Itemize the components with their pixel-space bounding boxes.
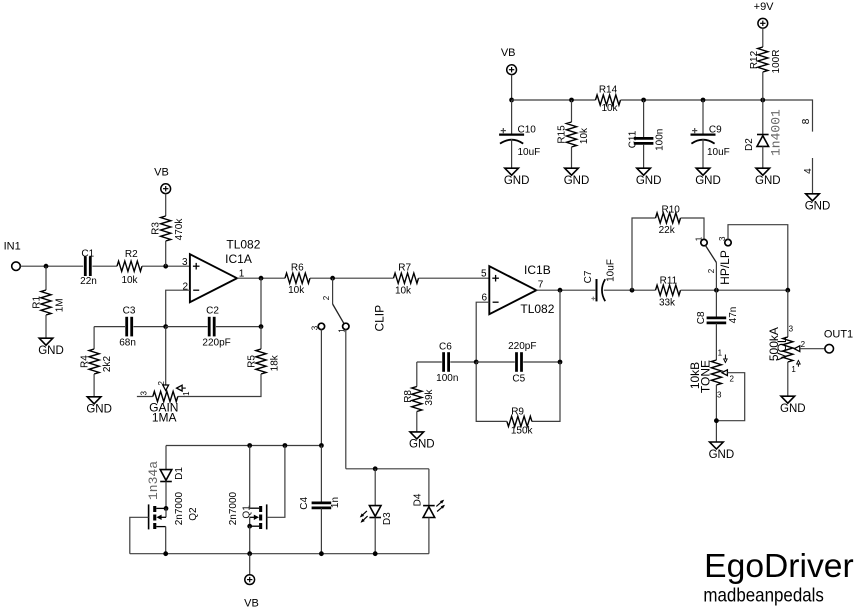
switch HP/LP contact 1 xyxy=(701,239,707,245)
resistor R14 10k xyxy=(596,95,621,105)
svg-text:OUT1: OUT1 xyxy=(824,328,853,340)
capacitor C11 100n xyxy=(643,100,645,138)
svg-text:R12: R12 xyxy=(749,50,760,69)
svg-text:68n: 68n xyxy=(119,337,136,348)
supply VB top-left xyxy=(161,184,171,194)
GAIN pin4 arrow xyxy=(177,385,183,391)
svg-text:1: 1 xyxy=(791,365,796,374)
node IC1B out xyxy=(558,288,563,293)
svg-text:R7: R7 xyxy=(398,263,411,274)
ground R1 xyxy=(39,338,53,345)
node input/R1 xyxy=(44,264,49,269)
svg-text:3: 3 xyxy=(717,391,722,400)
svg-text:2: 2 xyxy=(707,268,716,273)
wire TONE wiper loop xyxy=(716,373,744,421)
wire R7 to IC1B pin5 xyxy=(419,277,490,279)
switch CLIP lever xyxy=(333,304,344,323)
svg-text:39k: 39k xyxy=(424,388,435,405)
svg-text:R15: R15 xyxy=(557,125,568,144)
resistor R6 10k xyxy=(285,273,310,283)
input terminal IN1 xyxy=(12,262,21,271)
svg-text:4: 4 xyxy=(803,168,814,174)
svg-text:1n: 1n xyxy=(330,497,341,508)
wire R1 to ground xyxy=(45,315,47,338)
svg-text:C8: C8 xyxy=(696,311,707,324)
svg-text:GND: GND xyxy=(636,175,662,187)
op-amp IC1B TL082 xyxy=(489,266,536,314)
svg-text:10k: 10k xyxy=(395,285,412,296)
wire D3 to bus xyxy=(374,518,376,554)
svg-text:1: 1 xyxy=(718,349,723,358)
wire CLIP3 down xyxy=(320,329,322,445)
svg-text:C6: C6 xyxy=(439,342,452,353)
node bus Q1 drain xyxy=(247,443,252,448)
svg-text:HP/LP: HP/LP xyxy=(718,250,732,285)
node C9 tap xyxy=(701,98,706,103)
node VB/C10 xyxy=(509,98,514,103)
wire CLIP1 down xyxy=(345,329,347,468)
wire C3 to node xyxy=(133,326,165,328)
svg-text:2: 2 xyxy=(801,340,806,349)
svg-text:GND: GND xyxy=(38,345,64,357)
svg-text:10uF: 10uF xyxy=(707,147,730,158)
capacitor C1 22n xyxy=(85,256,90,276)
wire IC1B pin6 loop xyxy=(476,302,489,362)
svg-text:R1: R1 xyxy=(32,295,43,308)
capacitor C7 10uF xyxy=(596,279,598,301)
resistor R1 1M xyxy=(41,290,51,315)
svg-text:2n7000: 2n7000 xyxy=(228,491,239,525)
svg-text:150k: 150k xyxy=(511,426,534,437)
svg-text:GND: GND xyxy=(755,175,781,187)
wire D3/D4 row xyxy=(346,468,429,470)
node Q1 source xyxy=(247,524,252,529)
wire R2 to IC1A pin3 xyxy=(142,265,190,267)
svg-text:CLIP: CLIP xyxy=(373,305,387,332)
svg-text:2k2: 2k2 xyxy=(102,356,113,373)
svg-text:8: 8 xyxy=(801,118,812,124)
svg-text:R8: R8 xyxy=(403,390,414,403)
wire C1 to R2 xyxy=(92,265,117,267)
wire R10 to contact1 xyxy=(681,218,705,240)
node R15 tap xyxy=(569,98,574,103)
svg-text:GND: GND xyxy=(504,175,530,187)
svg-text:22n: 22n xyxy=(80,276,97,287)
resistor R15 10k xyxy=(571,100,573,122)
node R12/D2 xyxy=(760,98,765,103)
capacitor C3 68n xyxy=(127,317,132,337)
svg-text:1n4001: 1n4001 xyxy=(769,109,784,156)
wire D4 to bus xyxy=(428,518,430,554)
svg-text:C3: C3 xyxy=(123,305,136,316)
svg-text:3: 3 xyxy=(310,325,319,330)
svg-text:C11: C11 xyxy=(627,130,638,148)
node Q2 drain xyxy=(164,506,169,511)
wire Q2 source to bus xyxy=(165,527,167,554)
svg-text:1: 1 xyxy=(695,236,704,241)
ground C11 xyxy=(637,168,651,175)
svg-text:5: 5 xyxy=(481,269,487,280)
ground R15 xyxy=(565,168,579,175)
svg-text:TL082: TL082 xyxy=(520,302,554,316)
node C6/C5/R9 xyxy=(474,360,479,365)
transistor Q1 2n7000 xyxy=(266,504,268,529)
svg-text:1: 1 xyxy=(182,391,191,396)
resistor R9 150k xyxy=(507,416,532,426)
svg-text:100R: 100R xyxy=(771,50,782,74)
svg-text:R11: R11 xyxy=(660,276,678,287)
potentiometer TONE 10kB xyxy=(711,360,721,385)
ground TONE xyxy=(710,442,724,449)
ground R4 xyxy=(87,397,101,404)
svg-text:GND: GND xyxy=(564,175,590,187)
GAIN wiper arrow pin2 xyxy=(163,385,169,391)
svg-text:3: 3 xyxy=(789,324,794,333)
ground C10 xyxy=(505,168,519,175)
wire top bus xyxy=(166,445,321,447)
svg-text:D1: D1 xyxy=(174,467,185,480)
wire Q1 bulk tie xyxy=(249,517,251,526)
svg-text:100n: 100n xyxy=(655,129,666,151)
wire node to C2 xyxy=(166,326,208,328)
node C2/R5 xyxy=(259,324,264,329)
supply +9V xyxy=(758,18,768,28)
capacitor C2 220pF xyxy=(209,317,214,337)
svg-text:7: 7 xyxy=(538,280,544,291)
switch HP/LP common stub xyxy=(715,263,717,291)
ground VOL xyxy=(781,396,795,403)
wire R8 drop xyxy=(416,362,418,387)
wire R12 to node xyxy=(762,72,764,100)
diode D2 1n4001 xyxy=(757,134,769,136)
svg-text:GND: GND xyxy=(709,449,735,461)
svg-text:1MA: 1MA xyxy=(152,411,177,425)
svg-text:IC1B: IC1B xyxy=(524,263,551,277)
svg-text:GND: GND xyxy=(780,403,806,415)
wire C5 to right node xyxy=(523,361,560,363)
ground R8 xyxy=(410,432,424,439)
svg-text:3: 3 xyxy=(182,257,188,268)
svg-text:R9: R9 xyxy=(511,406,524,417)
svg-text:VB: VB xyxy=(244,597,259,609)
node C3/C2/wiper xyxy=(163,324,168,329)
wire IC power pin4 stub xyxy=(812,158,814,194)
capacitor C10 10uF xyxy=(511,100,513,134)
op-amp IC1A TL082 xyxy=(190,254,237,302)
potentiometer GAIN 1MA xyxy=(153,391,178,401)
svg-text:C1: C1 xyxy=(81,248,94,259)
wire C4 branch xyxy=(320,446,322,503)
svg-text:C2: C2 xyxy=(206,305,219,316)
svg-text:100n: 100n xyxy=(436,373,458,384)
LED D3 xyxy=(369,506,381,517)
wire Q1 drain from bus xyxy=(249,446,251,509)
wire C6 to node xyxy=(450,361,476,363)
wire IC1A output xyxy=(237,277,285,279)
svg-text:TL082: TL082 xyxy=(226,238,260,252)
svg-text:2: 2 xyxy=(322,295,331,300)
node bus C4 xyxy=(319,551,324,556)
output terminal OUT1 xyxy=(825,344,834,353)
svg-text:2n7000: 2n7000 xyxy=(174,491,185,525)
wire IC1A pin2 loop xyxy=(166,290,190,326)
svg-text:C5: C5 xyxy=(512,373,525,384)
wire bottom bus xyxy=(130,553,429,555)
svg-text:R3: R3 xyxy=(151,222,162,235)
svg-text:220pF: 220pF xyxy=(508,341,536,352)
svg-text:IN1: IN1 xyxy=(4,240,21,252)
node C11 tap xyxy=(641,98,646,103)
wire VOL wiper to OUT1 xyxy=(800,348,825,350)
wire C6 row left xyxy=(417,361,442,363)
svg-text:1M: 1M xyxy=(54,298,65,312)
ground C9 xyxy=(696,168,710,175)
resistor R2 10k xyxy=(117,261,142,271)
resistor R10 22k xyxy=(656,213,681,223)
svg-text:C10: C10 xyxy=(518,125,537,136)
wire IN1 to C1 xyxy=(20,265,83,267)
resistor R4 2k2 xyxy=(89,349,99,374)
node bus VB xyxy=(247,551,252,556)
capacitor C8 47n xyxy=(707,318,727,323)
ground IC power xyxy=(806,194,820,201)
wire D2 to ground xyxy=(762,146,764,168)
svg-text:1n34a: 1n34a xyxy=(146,461,161,500)
node HP/LP right xyxy=(785,288,790,293)
wire VOL bottom xyxy=(787,362,789,396)
wire R11 to VOL node xyxy=(681,289,788,291)
svg-text:VOL: VOL xyxy=(775,336,789,360)
wire R9 left leg xyxy=(476,362,507,421)
wire C7 to R11 xyxy=(604,289,656,291)
wire R8 to ground xyxy=(416,412,418,432)
switch HP/LP lever xyxy=(705,245,716,262)
svg-text:D2: D2 xyxy=(744,138,755,151)
svg-text:GND: GND xyxy=(409,439,435,451)
svg-text:3: 3 xyxy=(718,236,727,241)
svg-text:R6: R6 xyxy=(291,262,304,273)
svg-text:10uF: 10uF xyxy=(606,259,617,282)
wire C3 corner to R4 xyxy=(93,327,95,349)
wire VB stub bottom xyxy=(249,554,251,575)
wire supply bus right xyxy=(621,100,813,132)
node switch common xyxy=(714,288,719,293)
transistor Q2 2n7000 xyxy=(148,504,150,529)
ground D2 xyxy=(756,168,770,175)
svg-text:C7: C7 xyxy=(583,270,594,283)
wire D4 top xyxy=(428,469,430,506)
supply VB power section xyxy=(507,65,517,75)
wire VB to bus xyxy=(511,75,513,100)
switch CLIP contact 1 xyxy=(343,323,349,329)
resistor R11 33k xyxy=(656,285,681,295)
wire TONE bottom xyxy=(715,385,717,442)
wire Q2 gate loop xyxy=(130,517,149,553)
capacitor C4 1n xyxy=(312,503,332,508)
svg-text:GND: GND xyxy=(695,175,721,187)
wire R1 stub top xyxy=(45,266,47,290)
wire contact3 loop xyxy=(728,225,788,291)
wire D1 top xyxy=(165,446,167,470)
svg-text:10k: 10k xyxy=(601,103,618,114)
wire R10 loop left xyxy=(632,218,656,290)
wire Q1 gate loop xyxy=(267,446,285,518)
svg-text:IC1A: IC1A xyxy=(225,252,252,266)
svg-text:EgoDriver: EgoDriver xyxy=(704,548,854,585)
resistor R8 39k xyxy=(412,387,422,412)
wire Q1 source to bus xyxy=(249,526,251,554)
svg-text:GND: GND xyxy=(805,201,831,213)
svg-text:2: 2 xyxy=(157,381,166,386)
wire D3 top xyxy=(374,469,376,506)
diode D1 1n34a xyxy=(160,470,172,481)
wire out node down to C2 xyxy=(260,278,262,326)
wire D1 to Q2 drain xyxy=(165,482,167,509)
svg-text:33k: 33k xyxy=(659,298,676,309)
TONE wiper arrow xyxy=(722,370,728,376)
svg-text:10k: 10k xyxy=(288,285,305,296)
VOL wiper arrow xyxy=(794,346,800,352)
svg-text:VB: VB xyxy=(154,166,169,178)
svg-text:18k: 18k xyxy=(269,354,280,371)
resistor R3 470k xyxy=(161,216,171,241)
svg-text:C9: C9 xyxy=(709,125,722,136)
wire supply bus left xyxy=(512,99,596,101)
svg-text:TONE: TONE xyxy=(699,360,713,393)
capacitor C6 100n xyxy=(444,352,449,372)
switch HP/LP contact 3 xyxy=(725,239,731,245)
svg-text:D3: D3 xyxy=(382,512,393,525)
node CLIP tap xyxy=(330,276,335,281)
svg-text:VB: VB xyxy=(501,47,516,59)
svg-text:R2: R2 xyxy=(125,249,138,260)
wire VB to R3 xyxy=(165,194,167,216)
svg-text:Q2: Q2 xyxy=(188,507,199,521)
capacitor C5 220pF xyxy=(517,352,522,372)
node bus Q2 source xyxy=(163,551,168,556)
wire C2 to R5 node xyxy=(216,326,261,328)
wire GAIN wiper xyxy=(165,327,167,386)
svg-text:C4: C4 xyxy=(299,496,310,509)
svg-text:10uF: 10uF xyxy=(518,147,541,158)
LED D4 xyxy=(423,505,435,507)
node TONE loop xyxy=(714,418,719,423)
wire out node to C5 node xyxy=(559,290,561,362)
switch CLIP contact 3 xyxy=(318,323,324,329)
svg-text:+9V: +9V xyxy=(754,1,775,13)
wire node to D2 xyxy=(762,100,764,135)
svg-text:D4: D4 xyxy=(412,493,423,506)
svg-text:GND: GND xyxy=(86,404,112,416)
wire GAIN pin3 stub xyxy=(137,396,153,398)
svg-text:3: 3 xyxy=(140,391,149,396)
node R3/pin3 xyxy=(163,264,168,269)
svg-text:22k: 22k xyxy=(659,225,676,236)
svg-text:R5: R5 xyxy=(247,355,258,368)
node C5/out xyxy=(558,360,563,365)
svg-text:R4: R4 xyxy=(79,355,90,368)
wire R6 to R7 xyxy=(310,277,394,279)
wire R5 to GAIN pin1 xyxy=(178,374,261,397)
svg-text:2: 2 xyxy=(729,375,734,384)
wire R9 right leg xyxy=(532,362,560,421)
node D3 tap xyxy=(373,466,378,471)
svg-text:470k: 470k xyxy=(174,218,185,241)
svg-text:madbeanpedals: madbeanpedals xyxy=(703,584,824,606)
wire +9V to R12 xyxy=(762,28,764,47)
svg-text:10k: 10k xyxy=(579,127,590,144)
switch CLIP common stub xyxy=(332,278,334,304)
wire R3 to node xyxy=(165,241,167,266)
svg-text:R10: R10 xyxy=(662,204,681,215)
wire C8 stub xyxy=(715,290,717,317)
svg-text:R14: R14 xyxy=(599,85,618,96)
svg-text:47n: 47n xyxy=(728,307,739,324)
svg-text:220pF: 220pF xyxy=(202,337,230,348)
potentiometer VOL 500kA xyxy=(783,337,793,362)
wire C4 to bus xyxy=(320,508,322,553)
resistor R5 18k xyxy=(260,327,262,349)
node IC1A out xyxy=(259,276,264,281)
wire VOL top xyxy=(787,290,789,337)
svg-text:Q1: Q1 xyxy=(242,505,253,519)
supply VB bottom xyxy=(245,575,255,585)
svg-text:10k: 10k xyxy=(121,275,138,286)
resistor R7 10k xyxy=(394,273,419,283)
wire IC1B output xyxy=(536,289,595,291)
node bus D3 xyxy=(373,551,378,556)
node bus Q1 gate xyxy=(283,443,288,448)
wire C8 to TONE xyxy=(715,323,717,360)
node R10 tap xyxy=(630,288,635,293)
wire R4 to ground xyxy=(93,374,95,397)
node bus/C4/CLIP3 xyxy=(319,443,324,448)
resistor R12 100R xyxy=(758,47,768,72)
wire node to C5 xyxy=(476,361,515,363)
capacitor C9 10uF xyxy=(702,100,704,134)
wire feedback row left xyxy=(94,326,125,328)
